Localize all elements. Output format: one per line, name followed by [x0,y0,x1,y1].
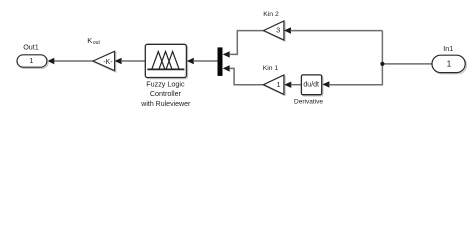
wire Kin2 to mux input 1 [229,31,264,55]
svg-text:K: K [87,36,92,45]
wire fuzzy output to Kout [121,60,146,62]
arrowhead into Kout [115,58,122,64]
block Derivative du/dt [301,75,323,96]
svg-text:Kin 1: Kin 1 [263,65,279,72]
wire Kout output to Out1 [53,60,94,62]
gain Kout [93,51,116,72]
arrowhead into mux input 1 [223,51,230,57]
membership baseline [147,68,184,70]
wire In1 to junction [382,63,432,65]
membership triangle right [166,52,179,70]
arrowhead into fuzzy block [187,58,194,64]
svg-text:du/dt: du/dt [303,82,319,89]
arrowhead into mux input 2 [223,65,230,71]
svg-text:In1: In1 [443,44,453,53]
svg-text:-K-: -K- [103,59,113,66]
svg-text:Fuzzy Logic: Fuzzy Logic [146,80,185,89]
outport Out1 [17,55,48,69]
block Fuzzy Logic Controller [145,44,187,78]
arrowhead into Out1 [47,58,54,64]
svg-text:1: 1 [277,82,281,89]
svg-text:Controller: Controller [150,89,182,98]
arrowhead into Kin1 [284,82,291,88]
svg-text:out: out [93,40,101,46]
svg-text:3: 3 [276,28,280,35]
gain Kin2 [264,21,286,41]
svg-text:Derivative: Derivative [294,98,323,105]
membership triangle left [152,52,165,70]
wire junction to Kin2 [290,30,382,32]
gain Kin1 [264,75,286,96]
junction dot [380,62,384,66]
mux [218,47,223,76]
membership triangle middle [159,52,172,70]
arrowhead into derivative [322,81,329,87]
wire mux output to fuzzy block [193,60,217,62]
svg-text:with Ruleviewer: with Ruleviewer [140,101,191,108]
svg-text:Out1: Out1 [23,42,39,51]
wire derivative to Kin1 [291,84,302,86]
wire Kin1 to mux input 2 [229,68,264,84]
wire junction to derivative [329,31,383,85]
svg-text:Kin 2: Kin 2 [263,11,279,18]
arrowhead into Kin2 [284,27,291,33]
svg-text:1: 1 [29,56,33,65]
svg-text:1: 1 [447,59,452,69]
inport In1 [432,55,466,74]
